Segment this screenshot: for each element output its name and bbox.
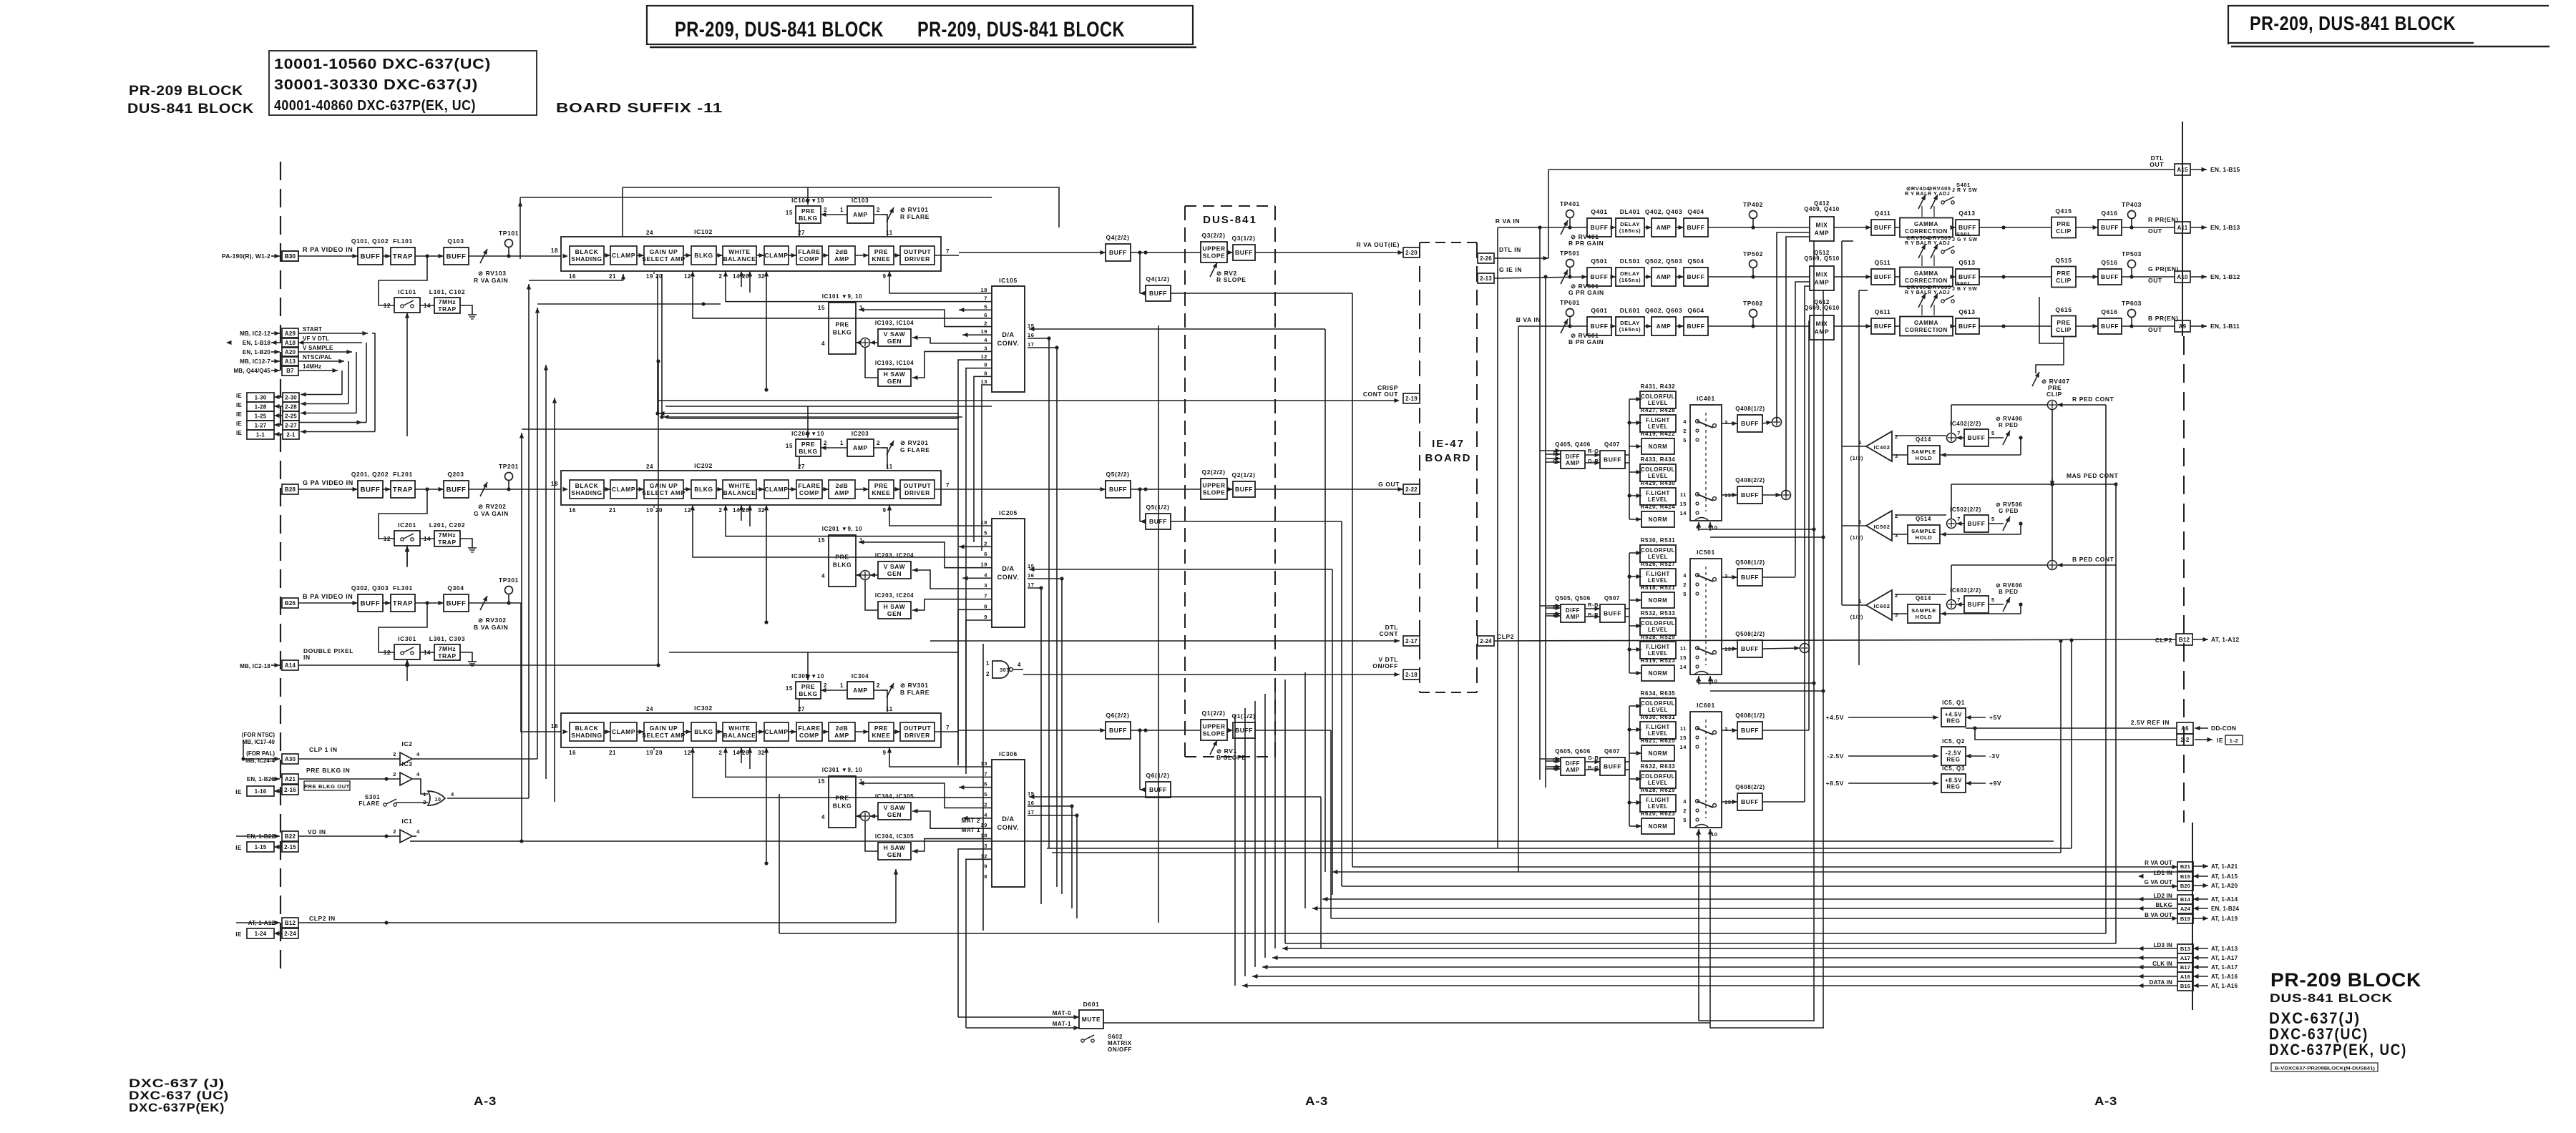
svg-text:Q607: Q607 xyxy=(1604,748,1620,755)
svg-text:2-25: 2-25 xyxy=(285,413,297,419)
svg-text:PR-209 BLOCK: PR-209 BLOCK xyxy=(2270,969,2421,991)
svg-text:TP502: TP502 xyxy=(1743,250,1763,257)
svg-text:AT, 1-A19: AT, 1-A19 xyxy=(2211,916,2238,922)
svg-text:5: 5 xyxy=(1683,591,1687,597)
svg-text:PR-209, DUS-841 BLOCK: PR-209, DUS-841 BLOCK xyxy=(917,18,1125,41)
svg-text:F.LIGHT: F.LIGHT xyxy=(1646,644,1670,650)
svg-text:PRE BLKG OUT: PRE BLKG OUT xyxy=(304,783,350,790)
svg-text:BLACK: BLACK xyxy=(575,248,599,255)
svg-text:H SAW: H SAW xyxy=(884,371,906,378)
svg-text:EN, 1-B20: EN, 1-B20 xyxy=(243,349,270,355)
svg-text:A-3: A-3 xyxy=(474,1094,497,1108)
svg-text:AMP: AMP xyxy=(1815,278,1830,285)
svg-text:R528, R529: R528, R529 xyxy=(1641,634,1676,640)
svg-text:⊘RV504: ⊘RV504 xyxy=(1906,235,1930,241)
svg-text:J G Y SW: J G Y SW xyxy=(1952,237,1978,242)
svg-text:L101, C102: L101, C102 xyxy=(429,288,465,295)
svg-text:G-B: G-B xyxy=(1588,755,1599,761)
svg-text:LEVEL: LEVEL xyxy=(1648,423,1668,430)
svg-text:PRE: PRE xyxy=(801,207,815,215)
svg-text:PRE: PRE xyxy=(801,683,815,690)
svg-text:BUFF: BUFF xyxy=(1741,798,1759,805)
svg-text:D601: D601 xyxy=(1083,1001,1100,1008)
svg-text:DOUBLE PIXEL: DOUBLE PIXEL xyxy=(303,647,353,654)
svg-text:CLAMP: CLAMP xyxy=(764,486,788,493)
svg-text:CLAMP: CLAMP xyxy=(612,252,635,259)
svg-text:1: 1 xyxy=(423,791,426,798)
svg-text:BUFF: BUFF xyxy=(2101,224,2119,231)
svg-text:B VA GAIN: B VA GAIN xyxy=(474,624,508,631)
svg-text:IC3: IC3 xyxy=(401,760,412,767)
svg-text:BUFF: BUFF xyxy=(447,252,467,260)
svg-text:LEVEL: LEVEL xyxy=(1648,650,1668,657)
svg-text:FL201: FL201 xyxy=(393,471,413,478)
svg-text:15: 15 xyxy=(818,778,825,785)
svg-text:2: 2 xyxy=(718,507,722,514)
svg-text:Q1(2/2): Q1(2/2) xyxy=(1201,710,1225,717)
svg-text:PRE: PRE xyxy=(874,482,888,489)
svg-text:LEVEL: LEVEL xyxy=(1648,730,1668,737)
svg-text:COLORFUL: COLORFUL xyxy=(1641,700,1675,707)
svg-text:B21: B21 xyxy=(2180,863,2190,870)
svg-text:BLKG: BLKG xyxy=(833,802,852,809)
svg-text:+8.5V: +8.5V xyxy=(1945,777,1962,783)
svg-text:2-22: 2-22 xyxy=(1405,486,1418,493)
svg-text:7: 7 xyxy=(1957,430,1961,436)
svg-text:MB, IC17-40: MB, IC17-40 xyxy=(243,739,275,745)
svg-text:NORM: NORM xyxy=(1649,597,1668,604)
svg-text:GEN: GEN xyxy=(887,378,902,385)
svg-text:IC202: IC202 xyxy=(694,462,713,469)
svg-text:Q608(1/2): Q608(1/2) xyxy=(1735,712,1765,719)
svg-text:PRE: PRE xyxy=(874,248,888,255)
svg-text:MB, Q44/Q45: MB, Q44/Q45 xyxy=(233,368,270,374)
svg-text:PRE: PRE xyxy=(874,725,888,732)
svg-text:Q4(2/2): Q4(2/2) xyxy=(1106,234,1129,241)
svg-text:S401: S401 xyxy=(1956,182,1971,188)
svg-text:9: 9 xyxy=(882,273,886,280)
svg-text:LEVEL: LEVEL xyxy=(1648,707,1668,713)
svg-text:OUTPUT: OUTPUT xyxy=(904,248,932,255)
svg-text:AMP: AMP xyxy=(1566,614,1580,620)
svg-text:TP101: TP101 xyxy=(499,230,519,237)
svg-text:⊘RV405: ⊘RV405 xyxy=(1928,185,1951,192)
svg-text:REG: REG xyxy=(1946,756,1960,762)
svg-text:7MHz: 7MHz xyxy=(439,298,457,305)
svg-text:AT, 1-A15: AT, 1-A15 xyxy=(2211,873,2238,880)
svg-text:Q416: Q416 xyxy=(2101,210,2117,217)
svg-text:TP401: TP401 xyxy=(1560,200,1580,207)
svg-text:KNEE: KNEE xyxy=(872,732,890,739)
svg-text:7: 7 xyxy=(946,248,950,255)
svg-text:15: 15 xyxy=(786,443,793,449)
svg-text:GAMMA: GAMMA xyxy=(1914,270,1938,277)
svg-text:LEVEL: LEVEL xyxy=(1648,627,1668,633)
svg-text:17: 17 xyxy=(1028,341,1035,348)
svg-text:SLOPE: SLOPE xyxy=(1203,730,1226,737)
svg-text:TP603: TP603 xyxy=(2122,300,2142,307)
svg-text:2: 2 xyxy=(877,682,880,689)
svg-text:Q3(1/2): Q3(1/2) xyxy=(1231,235,1255,242)
svg-text:R519, R523: R519, R523 xyxy=(1641,657,1676,664)
svg-text:BUFF: BUFF xyxy=(1590,224,1608,231)
svg-text:BUFF: BUFF xyxy=(1109,727,1127,734)
svg-text:3: 3 xyxy=(984,345,987,351)
svg-text:2: 2 xyxy=(1683,808,1687,814)
svg-text:16: 16 xyxy=(569,507,576,514)
svg-text:Q3(2/2): Q3(2/2) xyxy=(1201,232,1225,239)
svg-text:EN, 1-B15: EN, 1-B15 xyxy=(2210,166,2240,173)
svg-text:TRAP: TRAP xyxy=(393,486,413,494)
svg-text:Q505, Q506: Q505, Q506 xyxy=(1555,595,1591,602)
svg-text:-2.5V: -2.5V xyxy=(1828,752,1844,760)
svg-text:7: 7 xyxy=(984,295,987,302)
svg-text:1: 1 xyxy=(840,440,844,446)
svg-text:B7: B7 xyxy=(286,368,294,374)
svg-text:B16: B16 xyxy=(2180,983,2190,989)
svg-text:⊘RV604: ⊘RV604 xyxy=(1906,284,1930,290)
svg-text:DL401: DL401 xyxy=(1620,208,1641,215)
svg-text:LD3 IN: LD3 IN xyxy=(2153,942,2172,948)
svg-text:R621, R625: R621, R625 xyxy=(1641,737,1676,744)
svg-text:IC306: IC306 xyxy=(999,750,1018,757)
svg-text:R628, R629: R628, R629 xyxy=(1641,787,1676,793)
svg-text:Q608(2/2): Q608(2/2) xyxy=(1735,784,1765,790)
svg-text:MUTE: MUTE xyxy=(1082,1016,1101,1023)
svg-text:CONT: CONT xyxy=(1380,630,1399,637)
svg-text:2dB: 2dB xyxy=(836,725,849,732)
svg-text:BUFF: BUFF xyxy=(1604,609,1621,617)
svg-text:2-17: 2-17 xyxy=(1405,638,1418,644)
svg-text:A20: A20 xyxy=(285,349,296,355)
svg-text:IE: IE xyxy=(236,393,242,399)
svg-text:3: 3 xyxy=(984,582,987,589)
svg-text:2: 2 xyxy=(1683,582,1687,588)
svg-text:12: 12 xyxy=(384,303,391,309)
svg-text:IC5, Q3: IC5, Q3 xyxy=(1942,765,1965,772)
svg-text:CORRECTION: CORRECTION xyxy=(1905,278,1948,284)
svg-text:Q6(2/2): Q6(2/2) xyxy=(1106,712,1129,719)
svg-text:3: 3 xyxy=(1724,419,1728,426)
svg-text:IC601: IC601 xyxy=(1697,702,1715,709)
svg-text:S301: S301 xyxy=(365,794,380,800)
svg-text:AT, 1-A21: AT, 1-A21 xyxy=(2211,863,2238,870)
svg-text:2-24: 2-24 xyxy=(284,931,296,937)
svg-text:DXC-637P(EK): DXC-637P(EK) xyxy=(129,1101,225,1114)
svg-text:Q2(1/2): Q2(1/2) xyxy=(1231,471,1255,479)
svg-text:COMP: COMP xyxy=(799,255,819,263)
svg-text:1-27: 1-27 xyxy=(255,422,267,428)
svg-text:TP403: TP403 xyxy=(2122,201,2142,208)
svg-text:COLORFUL: COLORFUL xyxy=(1641,620,1675,627)
svg-text:G PA VIDEO IN: G PA VIDEO IN xyxy=(303,479,353,486)
svg-text:BUFF: BUFF xyxy=(1958,323,1976,330)
svg-text:11: 11 xyxy=(1680,645,1687,652)
svg-text:FLARE: FLARE xyxy=(798,248,820,255)
svg-text:PR-209 BLOCK: PR-209 BLOCK xyxy=(129,84,243,99)
svg-text:8: 8 xyxy=(984,873,987,880)
svg-text:LD2 IN: LD2 IN xyxy=(2153,893,2172,899)
svg-text:Q513: Q513 xyxy=(1958,259,1975,266)
svg-text:BUFF: BUFF xyxy=(1874,273,1892,280)
svg-text:Q604: Q604 xyxy=(1687,307,1704,314)
svg-text:9: 9 xyxy=(984,614,987,620)
svg-text:A29: A29 xyxy=(285,330,296,337)
svg-text:5: 5 xyxy=(1991,516,1995,522)
svg-text:2: 2 xyxy=(1683,428,1687,434)
svg-text:16: 16 xyxy=(569,273,576,280)
svg-text:TP402: TP402 xyxy=(1743,201,1763,208)
svg-text:12: 12 xyxy=(684,273,691,280)
svg-text:2: 2 xyxy=(393,751,396,757)
svg-text:2: 2 xyxy=(718,750,722,756)
svg-text:D/A: D/A xyxy=(1002,815,1014,823)
svg-text:BUFF: BUFF xyxy=(447,599,467,607)
svg-text:F.LIGHT: F.LIGHT xyxy=(1646,797,1670,803)
svg-text:Q404: Q404 xyxy=(1687,208,1704,215)
svg-text:B22: B22 xyxy=(285,833,296,840)
svg-text:B-VDXC637-PR209BLOCK(M-DUS841): B-VDXC637-PR209BLOCK(M-DUS841) xyxy=(2275,1066,2375,1071)
svg-text:4: 4 xyxy=(821,814,825,820)
svg-text:(165ns): (165ns) xyxy=(1619,326,1641,333)
svg-text:G PR GAIN: G PR GAIN xyxy=(1568,289,1604,296)
svg-text:KNEE: KNEE xyxy=(872,255,890,263)
svg-text:13: 13 xyxy=(980,760,987,767)
svg-text:Q616: Q616 xyxy=(2101,308,2117,315)
svg-text:Q501: Q501 xyxy=(1591,257,1607,265)
svg-text:(FOR PAL): (FOR PAL) xyxy=(246,750,275,757)
svg-text:15: 15 xyxy=(1679,501,1687,507)
svg-text:40001-40860 DXC-637P(EK, UC): 40001-40860 DXC-637P(EK, UC) xyxy=(274,98,476,114)
svg-text:4: 4 xyxy=(416,771,420,778)
svg-text:IC502: IC502 xyxy=(1873,524,1890,530)
svg-text:BUFF: BUFF xyxy=(447,486,467,494)
svg-text:A17: A17 xyxy=(2180,955,2190,961)
svg-text:DTL IN: DTL IN xyxy=(1499,246,1521,253)
svg-text:R518, R521: R518, R521 xyxy=(1641,584,1676,591)
svg-text:4: 4 xyxy=(451,791,454,798)
svg-text:BUFF: BUFF xyxy=(1967,520,1985,527)
svg-text:B PA VIDEO IN: B PA VIDEO IN xyxy=(303,593,353,600)
svg-text:PRE: PRE xyxy=(2057,220,2070,227)
svg-text:OUTPUT: OUTPUT xyxy=(904,725,932,732)
svg-text:BUFF: BUFF xyxy=(2101,323,2119,330)
svg-text:2-20: 2-20 xyxy=(1405,250,1418,256)
svg-text:⊘ RV606: ⊘ RV606 xyxy=(1996,582,2022,589)
svg-text:OUT: OUT xyxy=(2148,227,2162,235)
svg-text:R427, R428: R427, R428 xyxy=(1641,407,1676,413)
svg-text:SLOPE: SLOPE xyxy=(1203,252,1226,259)
svg-text:1: 1 xyxy=(986,660,990,667)
svg-text:BUFF: BUFF xyxy=(1958,273,1976,280)
svg-text:B30: B30 xyxy=(285,253,296,260)
svg-text:J R Y SW: J R Y SW xyxy=(1952,188,1977,193)
svg-text:IC401: IC401 xyxy=(1697,395,1715,402)
svg-text:16: 16 xyxy=(1028,332,1035,338)
svg-text:5: 5 xyxy=(984,530,987,536)
svg-text:⊘ RV406: ⊘ RV406 xyxy=(1996,416,2022,422)
svg-text:2-16: 2-16 xyxy=(284,787,296,793)
svg-text:SAMPLE: SAMPLE xyxy=(1911,448,1936,455)
svg-text:Q609, Q610: Q609, Q610 xyxy=(1804,305,1840,311)
svg-text:11: 11 xyxy=(1680,725,1687,732)
svg-text:B14: B14 xyxy=(2180,896,2191,903)
svg-text:9: 9 xyxy=(882,507,886,514)
svg-text:AMP: AMP xyxy=(1657,273,1672,280)
svg-text:A6: A6 xyxy=(2181,725,2189,732)
svg-text:R PED: R PED xyxy=(1999,422,2018,428)
svg-text:Q6(1/2): Q6(1/2) xyxy=(1146,772,1169,779)
svg-text:BLKG: BLKG xyxy=(833,328,852,335)
svg-text:2-26: 2-26 xyxy=(1480,255,1492,262)
svg-text:(165ns): (165ns) xyxy=(1619,277,1641,283)
svg-text:Q509, Q510: Q509, Q510 xyxy=(1804,255,1840,262)
svg-text:IC102: IC102 xyxy=(694,228,713,235)
svg-text:2: 2 xyxy=(718,273,722,280)
svg-text:FL101: FL101 xyxy=(393,237,413,245)
svg-text:Q5(1/2): Q5(1/2) xyxy=(1146,504,1169,511)
svg-text:R VA IN: R VA IN xyxy=(1496,217,1520,225)
svg-text:1: 1 xyxy=(840,207,844,213)
svg-text:Q402, Q403: Q402, Q403 xyxy=(1645,208,1682,215)
svg-text:R VA GAIN: R VA GAIN xyxy=(474,277,508,284)
svg-text:4: 4 xyxy=(984,572,987,578)
svg-text:2: 2 xyxy=(1895,433,1898,440)
svg-text:IC302: IC302 xyxy=(694,705,713,712)
svg-text:R Y BAL: R Y BAL xyxy=(1905,241,1928,246)
svg-text:2: 2 xyxy=(824,440,827,446)
svg-text:DIFF: DIFF xyxy=(1566,453,1580,460)
svg-text:(FOR NTSC): (FOR NTSC) xyxy=(242,732,275,738)
svg-text:Q507: Q507 xyxy=(1604,595,1620,602)
svg-text:H SAW: H SAW xyxy=(884,603,906,610)
svg-text:IC301 ▼9, 10: IC301 ▼9, 10 xyxy=(822,767,862,773)
svg-text:AT, 1-A17: AT, 1-A17 xyxy=(2211,964,2238,971)
svg-text:IE: IE xyxy=(235,845,242,851)
svg-text:Q304: Q304 xyxy=(447,584,464,592)
svg-text:R Y ADJ: R Y ADJ xyxy=(1928,290,1950,295)
svg-text:DELAY: DELAY xyxy=(1620,270,1640,277)
svg-text:A14: A14 xyxy=(285,662,296,669)
svg-text:VF V DTL: VF V DTL xyxy=(303,335,329,342)
svg-text:+9V: +9V xyxy=(1989,780,2001,787)
svg-text:Q415: Q415 xyxy=(2055,207,2072,215)
svg-text:5: 5 xyxy=(1683,437,1687,443)
svg-text:5: 5 xyxy=(1683,817,1687,823)
svg-text:⊘RV605: ⊘RV605 xyxy=(1928,284,1951,290)
svg-text:4: 4 xyxy=(984,337,987,343)
svg-text:R SLOPE: R SLOPE xyxy=(1216,276,1246,283)
svg-text:-3V: -3V xyxy=(1989,752,2000,760)
svg-text:2dB: 2dB xyxy=(836,482,849,489)
svg-text:15: 15 xyxy=(786,210,793,216)
svg-text:DRIVER: DRIVER xyxy=(904,255,930,263)
svg-text:TP601: TP601 xyxy=(1560,299,1580,306)
svg-text:24: 24 xyxy=(646,706,653,712)
svg-text:3: 3 xyxy=(1895,532,1898,539)
svg-text:3: 3 xyxy=(1895,612,1898,618)
svg-text:SHADING: SHADING xyxy=(571,489,602,496)
svg-text:16: 16 xyxy=(569,750,576,756)
svg-text:B SLOPE: B SLOPE xyxy=(1216,754,1246,761)
svg-text:Q613: Q613 xyxy=(1958,308,1975,315)
svg-text:MB, IC2-18: MB, IC2-18 xyxy=(240,663,270,669)
svg-text:COLORFUL: COLORFUL xyxy=(1641,773,1675,780)
svg-text:2: 2 xyxy=(984,320,987,327)
svg-text:MB, IC12-7: MB, IC12-7 xyxy=(240,358,270,365)
svg-text:SHADING: SHADING xyxy=(571,732,602,739)
svg-text:BLKG: BLKG xyxy=(799,215,817,222)
svg-text:BLKG: BLKG xyxy=(694,728,713,735)
svg-text:PA-190(R), W1-2: PA-190(R), W1-2 xyxy=(222,252,270,260)
svg-text:R Y BAL: R Y BAL xyxy=(1905,290,1928,295)
svg-text:2: 2 xyxy=(393,771,396,778)
svg-text:EN, 1-B12: EN, 1-B12 xyxy=(2210,273,2240,280)
svg-text:BUFF: BUFF xyxy=(1687,323,1704,330)
svg-text:DXC-637P(EK, UC): DXC-637P(EK, UC) xyxy=(2269,1041,2407,1059)
svg-text:Q5(2/2): Q5(2/2) xyxy=(1106,471,1129,478)
svg-text:(1/2): (1/2) xyxy=(1850,534,1863,541)
svg-text:BLKG: BLKG xyxy=(799,690,817,697)
svg-text:TP602: TP602 xyxy=(1743,300,1763,307)
svg-text:2-24: 2-24 xyxy=(1480,638,1492,644)
svg-text:IC101 ▼9, 10: IC101 ▼9, 10 xyxy=(822,293,862,300)
svg-text:A18: A18 xyxy=(285,340,296,346)
svg-text:20: 20 xyxy=(655,507,663,514)
svg-text:TRAP: TRAP xyxy=(393,599,413,607)
svg-text:CLAMP: CLAMP xyxy=(612,728,635,735)
svg-text:R FLARE: R FLARE xyxy=(900,213,930,220)
svg-text:AMP: AMP xyxy=(1566,767,1580,773)
svg-text:B VA OUT: B VA OUT xyxy=(2145,912,2172,918)
svg-text:18: 18 xyxy=(980,833,987,839)
svg-text:PRE: PRE xyxy=(835,320,849,328)
svg-text:IC304, IC305: IC304, IC305 xyxy=(875,793,914,800)
svg-text:CLIP: CLIP xyxy=(2056,227,2072,235)
svg-text:20: 20 xyxy=(655,273,663,280)
svg-text:13: 13 xyxy=(980,378,987,385)
svg-text:3: 3 xyxy=(1724,726,1728,732)
svg-text:Q602, Q603: Q602, Q603 xyxy=(1645,307,1682,314)
svg-text:SAMPLE: SAMPLE xyxy=(1911,528,1936,534)
svg-text:R634, R635: R634, R635 xyxy=(1641,690,1676,697)
svg-text:IC105: IC105 xyxy=(999,277,1018,284)
svg-text:B20: B20 xyxy=(2180,883,2190,889)
svg-text:MIX: MIX xyxy=(1816,320,1828,327)
svg-text:G IE IN: G IE IN xyxy=(1499,266,1522,273)
svg-text:GEN: GEN xyxy=(887,570,902,577)
svg-text:1: 1 xyxy=(840,682,844,689)
svg-text:Q605, Q606: Q605, Q606 xyxy=(1555,748,1591,755)
svg-text:(165ns): (165ns) xyxy=(1619,227,1641,234)
svg-text:BUFF: BUFF xyxy=(1967,434,1985,441)
svg-text:DUS-841: DUS-841 xyxy=(1203,214,1257,226)
svg-text:CLAMP: CLAMP xyxy=(764,728,788,735)
svg-text:EN, 1-B18: EN, 1-B18 xyxy=(243,340,270,346)
svg-text:BLKG: BLKG xyxy=(833,561,852,568)
svg-text:BUFF: BUFF xyxy=(2101,273,2119,280)
svg-text:7: 7 xyxy=(984,593,987,599)
svg-text:IE: IE xyxy=(236,402,242,408)
svg-text:L201, C202: L201, C202 xyxy=(429,521,465,529)
svg-text:IC5, Q2: IC5, Q2 xyxy=(1942,738,1965,745)
svg-text:9: 9 xyxy=(984,362,987,368)
svg-text:HOLD: HOLD xyxy=(1916,534,1933,541)
svg-text:2-27: 2-27 xyxy=(285,422,297,428)
svg-text:IC201 ▼9, 10: IC201 ▼9, 10 xyxy=(822,526,862,532)
svg-text:IC5, Q1: IC5, Q1 xyxy=(1942,700,1965,706)
svg-text:F.LIGHT: F.LIGHT xyxy=(1646,724,1670,730)
